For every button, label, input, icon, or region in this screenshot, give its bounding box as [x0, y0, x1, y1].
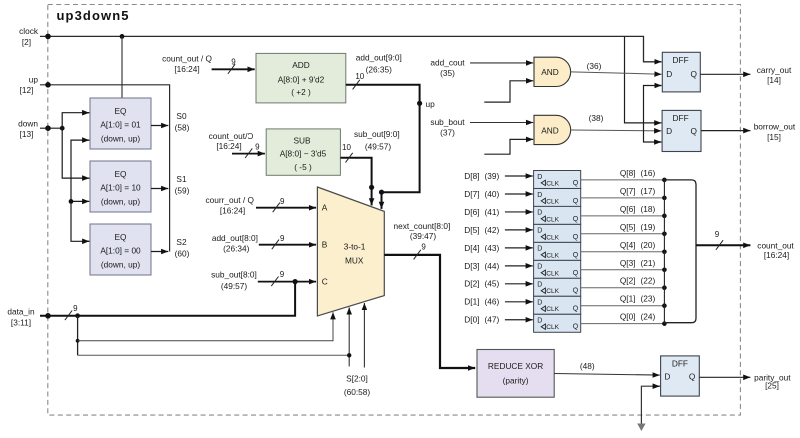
svg-text:REDUCE XOR: REDUCE XOR [488, 361, 543, 371]
svg-text:(22): (22) [641, 276, 656, 286]
svg-text:10: 10 [355, 72, 364, 81]
svg-text:DFF: DFF [673, 55, 689, 65]
wire Q[8] (16) out of register [581, 168, 665, 180]
node D[2] (45) input label [464, 279, 499, 289]
svg-text:CLK: CLK [546, 270, 559, 277]
svg-text:next_count[8:0]: next_count[8:0] [394, 221, 451, 231]
node data_in branch junction [75, 313, 80, 318]
svg-text:count_out / Q: count_out / Q [162, 53, 212, 63]
register bit cell D3 [534, 260, 581, 278]
wire second input stub of AND2 [484, 139, 533, 154]
wire Q[7] (17) out of register [581, 186, 665, 198]
svg-text:S2: S2 [176, 237, 187, 247]
svg-text:9: 9 [280, 234, 285, 243]
svg-text:AND: AND [541, 125, 559, 135]
svg-text:(44): (44) [485, 261, 500, 271]
wire Q[5] (19) out of register [581, 222, 665, 234]
svg-text:A[1:0] = 10: A[1:0] = 10 [100, 182, 141, 192]
svg-text:Q[3]: Q[3] [620, 258, 636, 268]
register bit cell D8 [534, 171, 581, 189]
svg-text:[3:11]: [3:11] [11, 318, 31, 328]
bus-width slash 9 on next_count [414, 243, 427, 260]
node junction dot Q[0] on bus [662, 321, 667, 326]
svg-text:[16:24]: [16:24] [764, 250, 789, 260]
svg-text:CLK: CLK [546, 252, 559, 259]
wire up net down the select column [40, 85, 170, 252]
wire D[6] into register [505, 211, 533, 213]
svg-text:S[2:0]: S[2:0] [346, 373, 368, 383]
node clock junction to EQ column [120, 34, 125, 39]
node add_out[8:0] input label (MUX B) [212, 233, 258, 253]
node data_in pin dot [45, 313, 51, 319]
wire S1 output of EQ2 [151, 188, 168, 190]
svg-text:(26:35): (26:35) [366, 65, 393, 75]
bus-width slash 10 on sub_out [342, 143, 353, 162]
svg-text:(parity): (parity) [503, 375, 529, 385]
svg-text:(39): (39) [485, 171, 500, 181]
node junction dot Q[5] on bus [662, 232, 667, 237]
svg-text:D: D [537, 246, 542, 253]
svg-text:CLK: CLK [546, 324, 559, 331]
node courr_out / Q input label (MUX A) [205, 195, 254, 215]
svg-text:D: D [537, 300, 542, 307]
svg-text:D[8]: D[8] [464, 171, 479, 181]
input port clock [2] [19, 26, 39, 47]
wire D[8] into register [505, 175, 533, 177]
svg-text:(24): (24) [641, 312, 656, 322]
svg-text:add_cout: add_cout [430, 58, 465, 68]
svg-text:count_out/Ɔ: count_out/Ɔ [209, 131, 254, 141]
svg-text:EQ: EQ [115, 169, 128, 179]
svg-text:A[1:0] = 00: A[1:0] = 00 [100, 245, 141, 255]
wire data_in bus to MUX C node [40, 282, 295, 316]
svg-text:Q[0]: Q[0] [620, 312, 636, 322]
svg-text:data_in: data_in [7, 307, 35, 317]
svg-text:Q[2]: Q[2] [620, 276, 636, 286]
output port count_out [16:24] [696, 240, 794, 260]
wire count_out to ADD input [212, 68, 255, 70]
wire D[2] into register [505, 283, 533, 285]
svg-text:(43): (43) [485, 243, 500, 253]
dff DFF1 carry_out register [662, 52, 700, 92]
svg-text:(23): (23) [641, 294, 656, 304]
svg-text:D[6]: D[6] [464, 207, 479, 217]
register bit cell D1 [534, 296, 581, 314]
svg-text:D: D [666, 69, 672, 79]
svg-text:3-to-1: 3-to-1 [344, 242, 366, 252]
node add_out[9:0] label [356, 53, 402, 75]
wire clock drop to EQ1 [121, 36, 123, 98]
node D[8] (39) input label [464, 171, 499, 181]
node junction dot Q[6] on bus [662, 214, 667, 219]
svg-text:carry_out: carry_out [757, 65, 792, 75]
wire Q[1] (23) out of register [581, 294, 665, 306]
svg-text:CLK: CLK [546, 306, 559, 313]
wire add_out bus from ADD to MUX top [346, 85, 420, 209]
svg-text:[12]: [12] [20, 85, 34, 95]
svg-text:MUX: MUX [345, 256, 364, 266]
svg-text:9: 9 [73, 304, 78, 313]
svg-text:(down, up): (down, up) [101, 260, 140, 270]
bus-width slash 10 on add_out [353, 72, 365, 89]
xor-reduce REDUCE XOR (parity) [477, 350, 554, 398]
svg-text:[16:24]: [16:24] [220, 206, 245, 216]
svg-text:D: D [537, 282, 542, 289]
svg-text:up: up [426, 99, 436, 109]
svg-text:D[1]: D[1] [464, 297, 479, 307]
register bit cell D4 [534, 242, 581, 260]
svg-text:D[0]: D[0] [464, 315, 479, 325]
svg-text:(48): (48) [580, 361, 595, 371]
svg-text:D[3]: D[3] [464, 261, 479, 271]
wire (36) AND1 to DFF1 D [571, 61, 662, 74]
svg-text:Q: Q [689, 371, 696, 381]
svg-text:CLK: CLK [546, 198, 559, 205]
svg-text:(41): (41) [485, 207, 500, 217]
node next_count[8:0] label [394, 221, 451, 241]
wire sub_out to MUX C [258, 281, 316, 283]
svg-text:Q: Q [573, 270, 579, 277]
wire clock bracket DFF1/DFF2 [644, 86, 662, 143]
wire down net [40, 127, 62, 129]
svg-text:[16:24]: [16:24] [174, 64, 199, 74]
svg-text:(21): (21) [641, 258, 656, 268]
svg-text:DFF: DFF [673, 113, 689, 123]
svg-text:9: 9 [715, 230, 720, 239]
svg-text:count_out: count_out [757, 240, 794, 250]
svg-text:(39:47): (39:47) [410, 231, 437, 241]
svg-text:[25]: [25] [765, 381, 779, 391]
node S[2:0] select label [344, 373, 371, 397]
node S2 label [175, 237, 190, 259]
svg-text:sub_out[9:0]: sub_out[9:0] [354, 129, 400, 139]
node junction dot Q[4] on bus [662, 249, 667, 254]
svg-text:(40): (40) [485, 189, 500, 199]
and-gate AND2 [534, 115, 571, 144]
node junction dot Q[3] on bus [662, 267, 667, 272]
svg-text:borrow_out: borrow_out [754, 122, 796, 132]
svg-text:(26:34): (26:34) [223, 243, 250, 253]
svg-text:D: D [537, 210, 542, 217]
svg-text:( +2 ): ( +2 ) [291, 87, 311, 97]
node count_out / Q input label for ADD [162, 53, 212, 74]
node D[3] (44) input label [464, 261, 499, 271]
EQ comparator U2 (S1) [90, 161, 151, 212]
svg-text:D[4]: D[4] [464, 243, 479, 253]
wire D[5] into register [505, 229, 533, 231]
svg-text:AND: AND [541, 67, 559, 77]
svg-text:CLK: CLK [546, 234, 559, 241]
svg-text:(59): (59) [175, 186, 190, 196]
node down trunk junction [60, 126, 65, 131]
node junction dot data_in joins MUX C [293, 279, 298, 284]
wire clock stub into parity DFF [641, 386, 659, 424]
svg-text:Q[1]: Q[1] [620, 294, 636, 304]
dff DFF2 borrow_out register [662, 110, 701, 151]
svg-text:[16:24]: [16:24] [216, 141, 241, 151]
svg-text:S0: S0 [176, 111, 187, 121]
svg-text:(60): (60) [175, 249, 190, 259]
svg-text:(down, up): (down, up) [101, 134, 140, 144]
EQ comparator U1 (S0) [90, 98, 151, 149]
node count_out input label for SUB [209, 131, 254, 151]
wire Q bus gather vertical [663, 180, 665, 324]
svg-text:D: D [537, 264, 542, 271]
svg-text:(42): (42) [485, 225, 500, 235]
subtractor SUB (-5) [266, 129, 340, 175]
svg-text:(16): (16) [641, 168, 656, 178]
svg-text:add_out[8:0]: add_out[8:0] [212, 233, 258, 243]
svg-text:up: up [29, 75, 39, 85]
wire branch B to MUX bottom [78, 307, 350, 366]
bus-width slash 9 on data_in [65, 304, 78, 320]
svg-text:EQ: EQ [115, 232, 128, 242]
svg-text:D: D [537, 174, 542, 181]
wire Q bundle bracket [664, 180, 696, 323]
node D[1] (46) input label [464, 297, 499, 307]
wire add_out to MUX B [259, 244, 316, 246]
input port down [13] [18, 118, 38, 138]
dff DFF3 parity_out register [661, 356, 700, 396]
svg-text:add_out[9:0]: add_out[9:0] [356, 53, 402, 63]
wire D[0] into register [505, 319, 533, 321]
svg-text:Q: Q [573, 180, 579, 187]
node junction dot Q[8] on bus [662, 178, 667, 183]
svg-text:Q[5]: Q[5] [620, 222, 636, 232]
ground-like down arrow on clock stub [637, 424, 645, 432]
svg-text:Q: Q [573, 306, 579, 313]
svg-text:(45): (45) [485, 279, 500, 289]
svg-text:ADD: ADD [292, 60, 310, 70]
svg-text:Q: Q [573, 216, 579, 223]
bus-width slash 9 on MUX C [271, 270, 284, 286]
svg-text:D: D [537, 228, 542, 235]
svg-text:Q: Q [691, 69, 698, 79]
svg-text:CLK: CLK [546, 216, 559, 223]
svg-text:(36): (36) [587, 61, 602, 71]
input port data_in [3:11] [7, 307, 35, 328]
register bit cell D7 [534, 189, 581, 207]
svg-text:A: A [322, 203, 328, 213]
svg-text:A[1:0] = 01: A[1:0] = 01 [100, 119, 141, 129]
mux 3-to-1 MUX [317, 187, 384, 316]
node D[6] (41) input label [464, 207, 499, 217]
bus-width slash 9 on ADD input [228, 57, 236, 73]
svg-text:D[2]: D[2] [464, 279, 479, 289]
svg-text:up3down5: up3down5 [57, 8, 130, 23]
node D[0] (47) input label [464, 315, 499, 325]
wire add_cout to AND1 [470, 62, 533, 64]
svg-text:D: D [537, 318, 542, 325]
svg-text:A[8:0] + 9'd2: A[8:0] + 9'd2 [278, 74, 325, 84]
svg-text:sub_out[8:0]: sub_out[8:0] [211, 270, 257, 280]
bus-width slash 9 on MUX B [272, 234, 285, 249]
svg-text:C: C [322, 276, 328, 286]
node S0 label [175, 111, 190, 133]
svg-text:(37): (37) [440, 128, 455, 138]
wire select S into MUX bottom [363, 303, 365, 368]
wire branch A to MUX bottom [78, 312, 333, 341]
wire (38) AND2 to DFF2 D [571, 113, 662, 131]
wire data_in lower branches [77, 316, 79, 356]
node D[7] (40) input label [464, 189, 499, 199]
adder ADD (+2) [256, 53, 346, 103]
svg-text:S1: S1 [176, 174, 187, 184]
svg-text:D: D [664, 371, 670, 381]
bus-width slash 9 on count_out [715, 230, 723, 250]
wire (48) REDUCE XOR to parity DFF [554, 361, 660, 375]
wire sub_out bus from SUB to MUX top [340, 158, 371, 206]
svg-text:(down, up): (down, up) [101, 197, 140, 207]
node D[4] (43) input label [464, 243, 499, 253]
node down pin dot [45, 125, 51, 131]
node clock pin dot [45, 34, 51, 40]
bus-width slash 9 on SUB input [245, 143, 260, 158]
svg-text:B: B [322, 240, 328, 250]
node junction dot on sub_out drop [369, 185, 374, 190]
node up pin dot [45, 82, 51, 88]
svg-text:(47): (47) [485, 315, 500, 325]
svg-text:(46): (46) [485, 297, 500, 307]
svg-text:9: 9 [280, 270, 285, 279]
svg-text:Q: Q [573, 324, 579, 331]
svg-text:SUB: SUB [293, 136, 311, 146]
node junction dot Q[1] on bus [662, 303, 667, 308]
node sub_out[9:0] label [354, 129, 400, 152]
svg-text:CLK: CLK [546, 288, 559, 295]
svg-text:D: D [666, 126, 672, 136]
bus-width slash 9 on MUX A [273, 197, 285, 212]
svg-text:Q[4]: Q[4] [620, 240, 636, 250]
svg-text:(18): (18) [641, 204, 656, 214]
svg-text:DFF: DFF [672, 358, 688, 368]
svg-text:(19): (19) [641, 222, 656, 232]
input port up [12] [20, 75, 39, 96]
wire next_count bus from MUX to REDUCE XOR [384, 255, 475, 368]
node branch B junction dot [347, 353, 351, 357]
svg-text:9: 9 [231, 57, 236, 66]
wire courr_out to MUX A [256, 207, 316, 209]
node sub_out[8:0] input label (MUX C) [211, 270, 257, 291]
svg-text:courr_out / Q: courr_out / Q [205, 195, 254, 205]
svg-text:(58): (58) [175, 123, 190, 133]
wire D[1] into register [505, 301, 533, 303]
svg-text:Q[7]: Q[7] [620, 186, 636, 196]
svg-text:down: down [18, 118, 38, 128]
register bit cell D0 [534, 314, 581, 332]
node up trunk junction at EQ2 [69, 199, 74, 204]
wire D[3] into register [505, 265, 533, 267]
svg-text:[14]: [14] [767, 75, 781, 85]
wire Q[6] (18) out of register [581, 204, 665, 216]
svg-text:(20): (20) [641, 240, 656, 250]
node branch junction dot [76, 339, 80, 343]
svg-text:CLK: CLK [546, 180, 559, 187]
node junction dot Q[7] on bus [662, 196, 667, 201]
node junction dot Q[2] on bus [662, 285, 667, 290]
wire D[4] into register [505, 247, 533, 249]
svg-text:( -5 ): ( -5 ) [294, 162, 312, 172]
svg-text:(49:57): (49:57) [365, 142, 392, 152]
node S1 label [175, 174, 190, 196]
svg-text:Q: Q [573, 198, 579, 205]
wire clock net [40, 36, 662, 61]
svg-text:sub_bout: sub_bout [430, 117, 465, 127]
svg-text:Q[8]: Q[8] [620, 168, 636, 178]
wire second input stub of AND1 [484, 81, 533, 102]
svg-text:D[5]: D[5] [464, 225, 479, 235]
svg-text:(35): (35) [440, 68, 455, 78]
svg-text:Q[6]: Q[6] [620, 204, 636, 214]
wire Q[2] (22) out of register [581, 276, 665, 288]
svg-text:Q: Q [573, 288, 579, 295]
output port parity_out [25] [699, 372, 791, 390]
wire Q[3] (21) out of register [581, 258, 665, 270]
node up net dot on add_out column [417, 99, 435, 109]
node D[5] (42) input label [464, 225, 499, 235]
svg-text:(49:57): (49:57) [221, 281, 248, 291]
register bit cell D6 [534, 206, 581, 224]
output port carry_out [14] [700, 65, 792, 85]
svg-text:Q: Q [691, 126, 698, 136]
svg-text:Q: Q [573, 252, 579, 259]
register bit cell D2 [534, 278, 581, 296]
node sub_bout label [430, 117, 465, 138]
svg-text:(17): (17) [641, 186, 656, 196]
svg-text:[2]: [2] [22, 37, 31, 47]
svg-text:A[8:0] − 3'd5: A[8:0] − 3'd5 [280, 149, 327, 159]
wire D[7] into register [505, 193, 533, 195]
svg-text:D[7]: D[7] [464, 189, 479, 199]
wire sub_bout to AND2 [470, 122, 533, 124]
wire down trunk to EQ1/EQ2 [62, 113, 89, 178]
svg-text:clock: clock [19, 26, 39, 36]
EQ comparator U3 (S2) [90, 224, 151, 275]
wire clock branch to DFF2 [625, 36, 662, 123]
svg-text:Q: Q [573, 234, 579, 241]
output port borrow_out [15] [701, 122, 796, 142]
svg-text:(38): (38) [589, 113, 604, 123]
and-gate AND1 [534, 57, 571, 86]
svg-text:EQ: EQ [115, 106, 128, 116]
wire up trunk to EQ1/EQ2/EQ3 [71, 140, 89, 241]
node junction dot at MUX top drop [379, 190, 384, 195]
svg-text:D: D [537, 192, 542, 199]
wire count_out to SUB input [232, 153, 265, 155]
wire S0 output of EQ1 [151, 125, 168, 127]
register bit cell D5 [534, 224, 581, 242]
svg-text:10: 10 [342, 143, 351, 152]
wire Q[4] (20) out of register [581, 240, 665, 252]
svg-text:(60:58): (60:58) [344, 387, 371, 397]
node add_cout label [430, 58, 465, 79]
svg-text:[13]: [13] [20, 129, 34, 139]
wire Q[0] (24) out of register [581, 312, 665, 324]
svg-text:9: 9 [255, 143, 260, 152]
svg-text:[15]: [15] [767, 132, 781, 142]
svg-text:9: 9 [421, 243, 426, 252]
svg-text:9: 9 [280, 197, 285, 206]
wire S2 output of EQ3 [151, 251, 168, 253]
